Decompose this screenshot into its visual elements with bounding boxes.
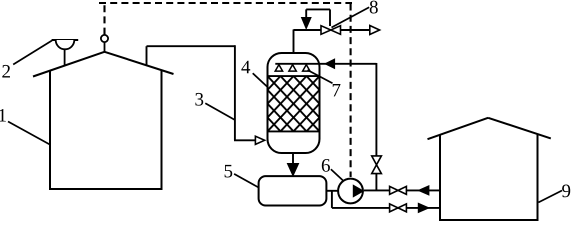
flame arrester FA bowl — [56, 40, 75, 49]
packing crosshatch — [268, 76, 320, 131]
pipe P3 top horizontal — [147, 45, 235, 47]
open arrow into column inlet — [255, 136, 264, 144]
flame arrester FA stem — [64, 49, 66, 65]
solid left arrow into column top — [325, 59, 335, 68]
column bottom outlet pipe — [292, 153, 294, 165]
spray feed riser — [375, 63, 377, 156]
leader line 5 — [234, 174, 259, 188]
gas pipe from column top — [294, 29, 323, 31]
solid right arrow lower pipe — [418, 203, 429, 212]
bypass loop right leg — [329, 9, 331, 26]
valve V-vert bowtie — [372, 156, 382, 174]
pump P6 circle — [338, 179, 363, 204]
bypass loop top — [306, 8, 330, 10]
label 7 — [333, 84, 341, 96]
pipe P3 downcomer — [234, 45, 236, 140]
flame arrester FA top line — [52, 39, 79, 41]
spray nozzle triangle a — [275, 65, 282, 72]
leader line 7 — [308, 70, 333, 83]
gas pipe to flare — [341, 29, 371, 31]
tank T5 seal pot — [259, 176, 327, 205]
label 1 — [0, 109, 6, 122]
label 9 — [562, 185, 570, 198]
packing bottom line — [268, 130, 320, 132]
pipe P3 inlet horizontal — [234, 139, 256, 141]
valve V-up bowtie upper pipe — [390, 186, 407, 194]
building B9 roof left slope — [428, 118, 489, 139]
vent stem on roof peak — [104, 42, 106, 52]
tank T1 digester walls — [50, 71, 162, 190]
packing top line — [268, 75, 320, 77]
label 5 — [225, 165, 233, 178]
dashed gas line vertical above vent — [103, 3, 105, 35]
building B9 roof right slope — [488, 118, 551, 139]
column riser to gas pipe — [293, 30, 295, 55]
drain branch down — [331, 191, 333, 208]
pump discharge pipe — [364, 189, 440, 191]
leader line 6 — [331, 169, 343, 180]
spray header line — [275, 63, 321, 65]
leader line 8 — [332, 7, 370, 27]
bypass loop left leg — [305, 9, 307, 18]
leader line 1 — [8, 122, 50, 145]
label 3 — [195, 93, 203, 106]
vent circle — [101, 35, 108, 42]
dashed gas line horizontal top — [99, 2, 352, 4]
label 2 — [2, 65, 10, 78]
pump P6 rotor triangle — [353, 185, 363, 197]
column C4 capsule body — [268, 53, 320, 153]
tank T1 roof left slope — [33, 52, 105, 77]
spray feed lower stub — [375, 174, 377, 191]
spray nozzle triangle c — [303, 65, 310, 72]
drain pipe lower — [332, 207, 440, 209]
leader line 3 — [205, 103, 235, 120]
label 6 — [322, 159, 330, 172]
label 8 — [370, 1, 378, 14]
spray feed line horizontal — [321, 63, 376, 65]
pipe P3 riser from roof — [146, 46, 148, 66]
leader line 4 — [253, 73, 268, 87]
leader line 9 — [539, 191, 563, 203]
pipe tank T5 to pump — [326, 190, 339, 192]
tank T1 roof right slope — [105, 52, 174, 74]
building B9 walls — [440, 135, 538, 221]
valve V-low bowtie lower pipe — [390, 204, 407, 212]
leader line 2 — [13, 41, 52, 65]
solid down arrow into tank T5 — [287, 164, 298, 176]
spray nozzle triangle b — [289, 65, 296, 72]
dashed gas line vertical right — [350, 4, 352, 178]
label 4 — [241, 61, 250, 74]
solid left arrow upper pipe — [418, 186, 429, 195]
solid down arrow on bypass — [302, 18, 312, 29]
open arrow flare end — [370, 26, 380, 35]
valve V8 bowtie — [321, 26, 341, 35]
